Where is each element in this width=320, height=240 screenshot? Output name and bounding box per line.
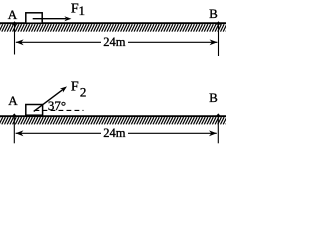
svg-text:1: 1 xyxy=(79,3,86,18)
svg-text:B: B xyxy=(209,6,218,21)
svg-text:37°: 37° xyxy=(48,98,66,113)
svg-text:A: A xyxy=(8,7,18,22)
svg-text:2: 2 xyxy=(80,85,87,100)
svg-text:B: B xyxy=(209,90,218,105)
svg-text:24m: 24m xyxy=(103,35,126,49)
svg-text:F: F xyxy=(71,80,79,95)
svg-text:24m: 24m xyxy=(103,126,126,140)
svg-text:A: A xyxy=(8,93,18,108)
